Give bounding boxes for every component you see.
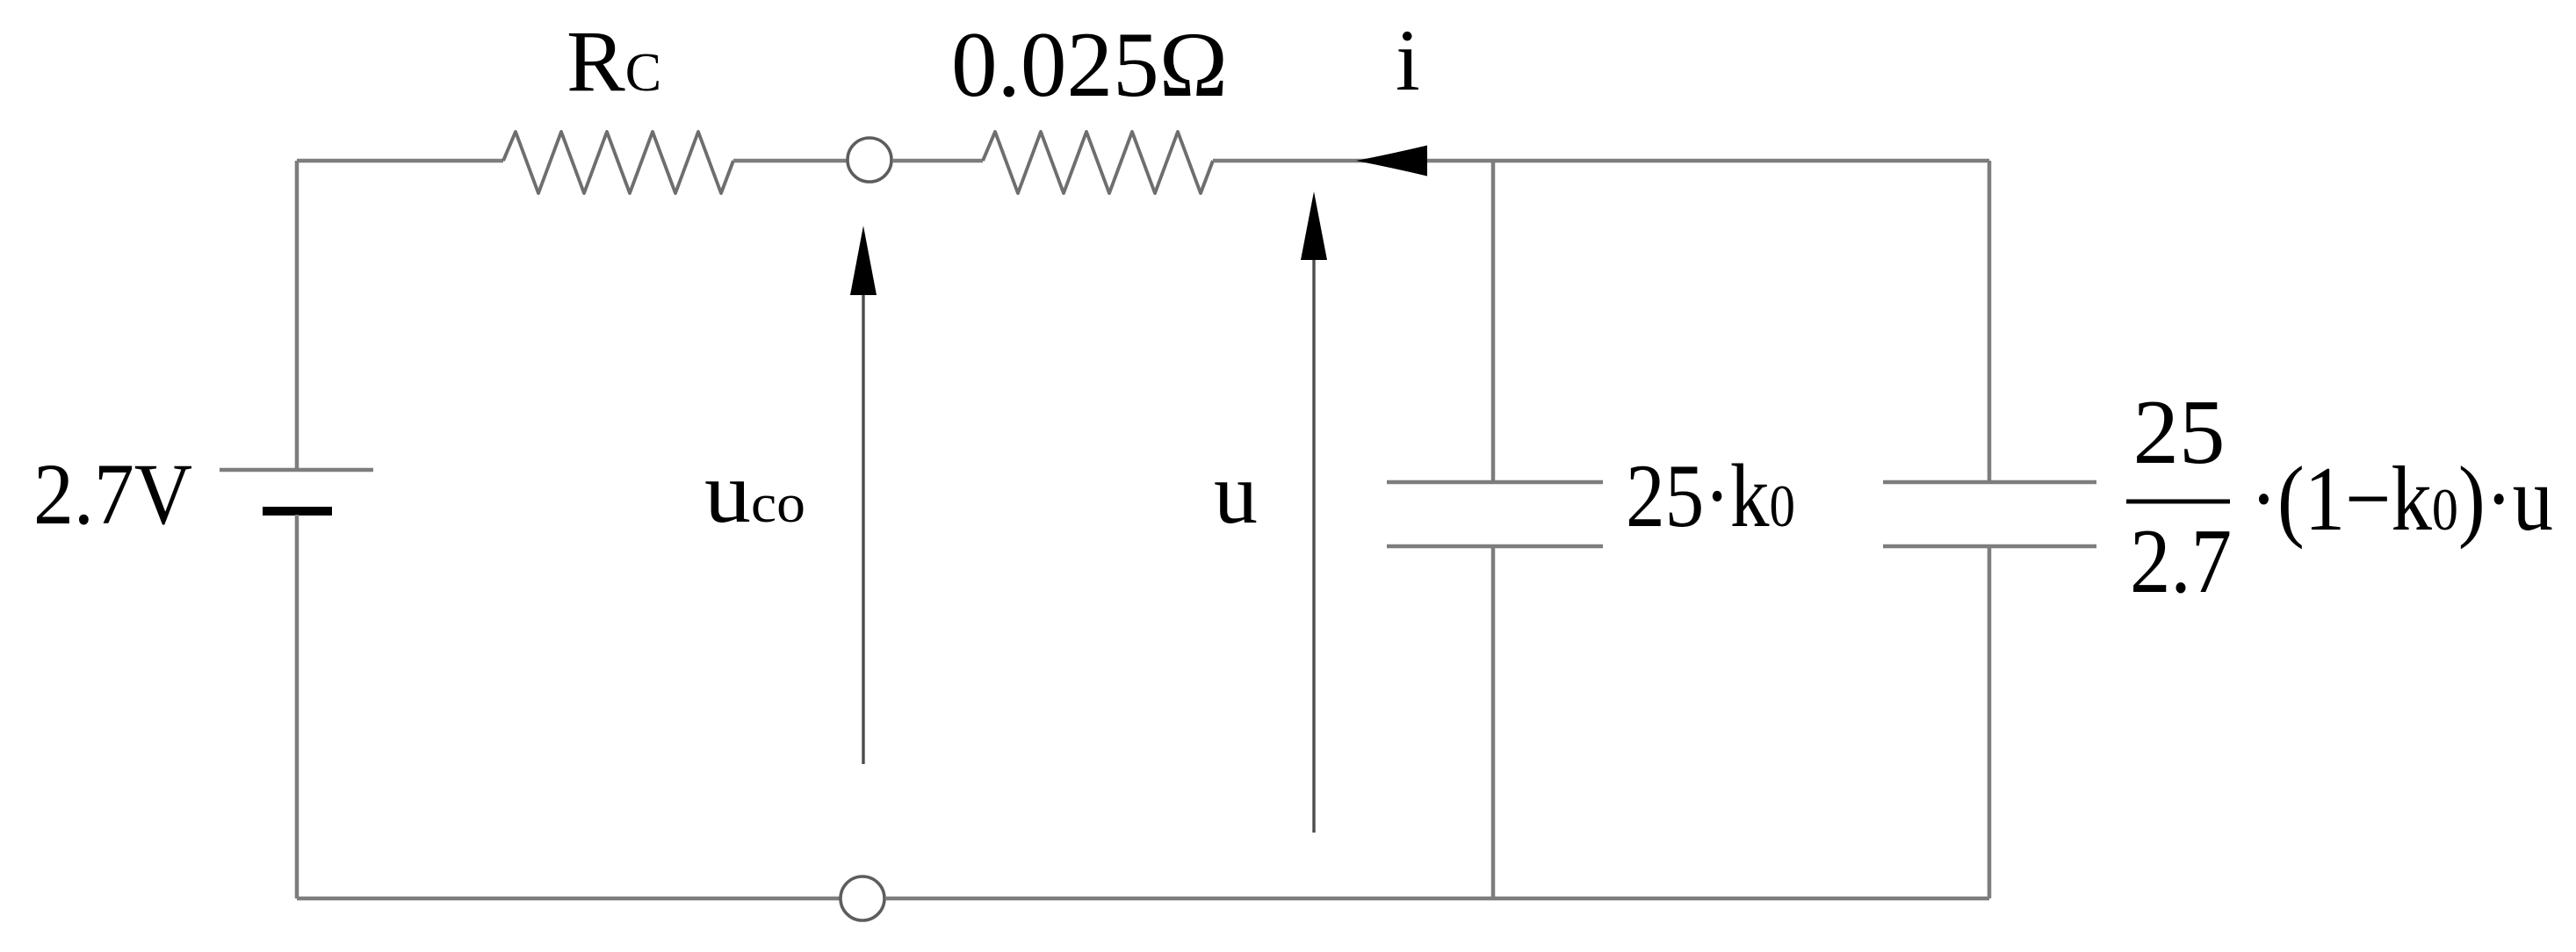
resistor RC zigzag — [503, 132, 733, 193]
svg-text:u: u — [1214, 444, 1258, 542]
capacitor C2 bottom lead (right edge) — [1988, 546, 1992, 898]
voltage arrow u_co shaft — [862, 295, 864, 764]
wire top-left segment — [297, 159, 503, 163]
wire between node A and 0.025 ohm resistor — [892, 159, 983, 163]
svg-text:2.7: 2.7 — [2130, 509, 2232, 612]
wire between RC and node A — [733, 159, 847, 163]
svg-text:2.7V: 2.7V — [33, 445, 192, 543]
current arrow i (arrowhead on top wire, pointing left) — [1356, 146, 1427, 177]
node B circle (bottom terminal) — [841, 876, 884, 920]
battery V1 short plate — [263, 507, 332, 516]
svg-text:25·k0: 25·k0 — [1626, 446, 1795, 546]
capacitor C1 plates — [1387, 482, 1603, 546]
label u_co — [704, 444, 805, 541]
battery V1 long plate — [220, 468, 373, 472]
label 0.025 ohm — [951, 13, 1228, 116]
wire left side lower (battery to bottom) — [295, 515, 299, 898]
wire bottom-right segment — [885, 897, 1989, 901]
label RC — [566, 12, 661, 110]
capacitor C2 plates — [1883, 482, 2096, 546]
node A circle (top terminal) — [848, 138, 891, 182]
wire top-right segment — [1213, 159, 1989, 163]
svg-text:25: 25 — [2133, 380, 2226, 483]
svg-text:·(1−k0)·u: ·(1−k0)·u — [2250, 447, 2553, 550]
voltage arrow u shaft — [1312, 260, 1315, 833]
capacitor C1 top lead — [1491, 161, 1496, 482]
capacitor C2 top lead (right edge) — [1988, 161, 1992, 482]
svg-text:RC: RC — [566, 12, 661, 110]
wire left side upper (to battery) — [295, 161, 299, 470]
label fraction denominator 2.7 — [2130, 509, 2232, 612]
wire bottom-left segment — [297, 897, 840, 901]
label 25*k0 (capacitor C1 value) — [1626, 446, 1795, 546]
label fraction numerator 25 — [2133, 380, 2226, 483]
resistor 0.025 ohm zigzag — [983, 132, 1213, 193]
capacitor C1 bottom lead — [1491, 546, 1496, 898]
label 2.7V — [33, 445, 192, 543]
label u — [1214, 444, 1258, 542]
svg-text:uco: uco — [704, 444, 805, 541]
svg-text:i: i — [1396, 11, 1420, 109]
voltage arrow u_co head — [850, 226, 877, 295]
voltage arrow u head — [1301, 191, 1327, 260]
label (1-k0)*u (capacitor C2 value) — [2250, 447, 2553, 550]
svg-text:0.025Ω: 0.025Ω — [951, 13, 1228, 116]
label i — [1396, 11, 1420, 109]
label fraction bar — [2126, 500, 2230, 504]
